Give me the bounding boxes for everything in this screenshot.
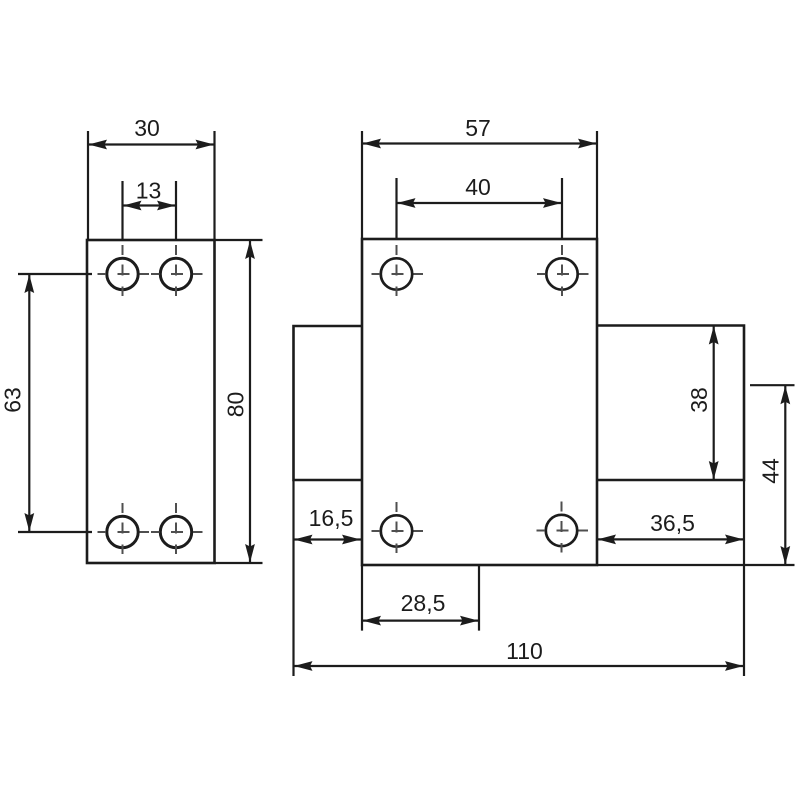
svg-text:38: 38 bbox=[686, 387, 712, 413]
svg-text:30: 30 bbox=[134, 115, 160, 141]
dimension 110 bbox=[294, 480, 745, 676]
dimension 40 bbox=[397, 174, 563, 238]
dimension 57 bbox=[362, 115, 597, 238]
svg-text:16,5: 16,5 bbox=[309, 505, 354, 531]
dimension 63 bbox=[0, 274, 92, 532]
svg-text:13: 13 bbox=[136, 178, 162, 204]
hole left-view bottom-right bbox=[151, 503, 203, 554]
hole left-view bottom-left bbox=[98, 503, 150, 554]
svg-text:44: 44 bbox=[758, 458, 784, 484]
hole right-view top-left bbox=[372, 245, 424, 296]
dimension 28,5 bbox=[362, 565, 479, 631]
svg-text:40: 40 bbox=[465, 174, 491, 200]
dimension 36,5 bbox=[597, 510, 744, 544]
svg-text:110: 110 bbox=[506, 638, 543, 664]
dimension 80 bbox=[215, 240, 263, 563]
hole left-view top-right bbox=[151, 245, 203, 296]
dimension 30 bbox=[88, 115, 215, 239]
dimension 16,5 bbox=[294, 505, 362, 544]
svg-text:36,5: 36,5 bbox=[650, 510, 695, 536]
hole right-view top-right bbox=[537, 245, 589, 296]
hole left-view top-left bbox=[98, 245, 150, 296]
right plate outline bbox=[362, 239, 597, 565]
svg-text:57: 57 bbox=[465, 115, 491, 141]
bottom edge extension line bbox=[597, 564, 795, 566]
svg-text:80: 80 bbox=[223, 392, 249, 418]
dimension 44 bbox=[750, 385, 795, 565]
right tab outline bbox=[597, 326, 744, 481]
hole right-view bottom-left bbox=[372, 502, 424, 553]
dimension 13 bbox=[123, 178, 177, 239]
dimension 38 bbox=[686, 326, 718, 481]
svg-text:63: 63 bbox=[0, 387, 26, 413]
left plate outline bbox=[87, 240, 215, 563]
left tab outline bbox=[294, 326, 363, 480]
svg-text:28,5: 28,5 bbox=[401, 590, 446, 616]
hole right-view bottom-right bbox=[537, 502, 589, 553]
